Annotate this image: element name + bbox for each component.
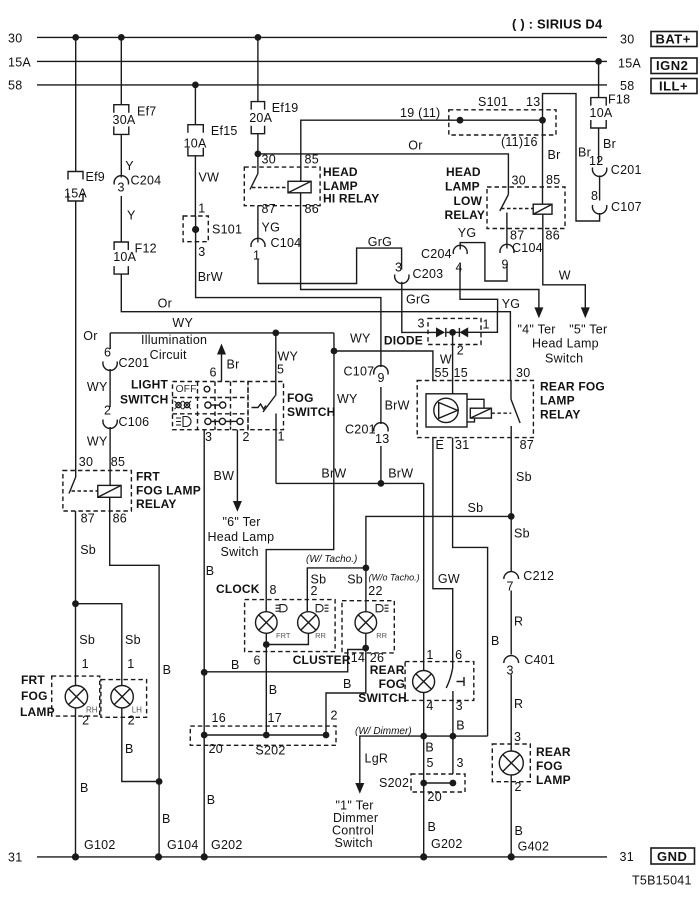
svg-text:C201: C201: [345, 423, 376, 437]
svg-text:Switch: Switch: [221, 545, 259, 559]
svg-text:8: 8: [270, 583, 277, 597]
wire 19(11): HI relay pin 85 up and right into S101: [301, 120, 543, 181]
instrument: CLOCK dashed box: [245, 600, 336, 652]
svg-text:31: 31: [620, 850, 634, 864]
bus line 31 (GND): [37, 856, 607, 858]
svg-text:1: 1: [198, 202, 205, 216]
node: junction Ef15 on bus 58: [192, 82, 199, 89]
wire WY: left end down to C201 pin 6: [109, 333, 111, 349]
svg-text:C104: C104: [512, 241, 543, 255]
svg-text:30: 30: [8, 32, 22, 46]
clock illumination lamp (FRT): [255, 612, 277, 634]
rear fog switch contact and lever: [452, 662, 454, 668]
svg-text:Ef9: Ef9: [86, 170, 106, 184]
connector C201 pin 13: [374, 423, 388, 432]
cluster lamp RR (W/o Tacho): [355, 612, 377, 634]
node: cluster lamp junction: [362, 645, 369, 652]
node G202 (left): [201, 853, 208, 860]
svg-text:G402: G402: [518, 840, 550, 854]
wire B: relay pin 31 down, right, down bypass: [453, 438, 488, 736]
svg-text:3: 3: [507, 664, 514, 678]
node G402: [508, 853, 515, 860]
svg-text:15A: 15A: [618, 57, 641, 71]
wire W: diode pin 2 down to REAR FOG LAMP RELAY pin 15: [452, 332, 454, 393]
wire VW: Ef15 to splice S101: [194, 156, 196, 216]
svg-text:W: W: [559, 268, 571, 282]
connector C401 pin 3: [504, 656, 519, 663]
wire: diode pin 1 to junction: [467, 312, 497, 333]
svg-text:C106: C106: [119, 415, 150, 429]
svg-text:(W/ Tacho.): (W/ Tacho.): [306, 554, 357, 565]
svg-text:87: 87: [520, 438, 534, 452]
LOW relay switch contact: [507, 187, 509, 195]
lamp housing: FRT FOG LAMP RH dashed box: [52, 676, 100, 716]
svg-text:YG: YG: [502, 297, 521, 311]
svg-text:F12: F12: [135, 242, 157, 256]
svg-text:26: 26: [370, 651, 384, 665]
svg-text:FOG: FOG: [379, 677, 406, 691]
wire bus30 to fuse Ef9: [75, 37, 77, 171]
wire bus58 to fuse Ef15: [194, 85, 196, 125]
svg-text:8: 8: [591, 189, 598, 203]
svg-text:BrW: BrW: [198, 270, 223, 284]
svg-text:REAR: REAR: [536, 745, 571, 759]
switch S: REAR FOG SWITCH dashed box: [405, 662, 474, 701]
svg-text:FOG LAMP: FOG LAMP: [136, 483, 201, 497]
svg-text:86: 86: [113, 511, 127, 525]
node: B junction to cluster pin 14: [201, 669, 208, 676]
diode D2 (right): [459, 327, 468, 337]
svg-text:Switch: Switch: [545, 351, 583, 365]
svg-text:3: 3: [395, 261, 402, 275]
svg-text:"5" Ter: "5" Ter: [569, 323, 607, 337]
wire: rear fog switch pin 4 down to S202: [423, 693, 425, 857]
svg-text:FRT: FRT: [276, 631, 291, 640]
svg-text:Or: Or: [158, 296, 172, 310]
svg-text:S202: S202: [255, 744, 285, 758]
bus line 58 (ILL+): [37, 84, 607, 86]
HI relay switch contact: [257, 167, 259, 173]
FRT relay switch contact: [75, 471, 77, 478]
rear fog relay actuating dashed link: [491, 412, 511, 414]
svg-text:RELAY: RELAY: [445, 208, 486, 222]
svg-text:B: B: [456, 719, 465, 733]
rear fog relay coil: [470, 408, 491, 418]
svg-text:22: 22: [368, 584, 382, 598]
fuse Ef19 20A: [251, 102, 264, 134]
wire WY: C201-6 to C106 pin 2: [109, 369, 111, 407]
svg-text:3: 3: [118, 181, 125, 195]
wire BrW: S101 pin3 down then right to C107 pin 9: [196, 242, 381, 367]
svg-text:19 (11): 19 (11): [400, 106, 440, 120]
svg-text:R: R: [514, 697, 523, 711]
svg-text:RR: RR: [315, 631, 326, 640]
svg-text:C203: C203: [413, 267, 444, 281]
svg-text:30: 30: [620, 32, 634, 46]
wire YG: C204-4 down, right, down to Or/YG junction: [460, 266, 498, 312]
svg-text:C212: C212: [523, 569, 554, 583]
svg-text:7: 7: [507, 580, 514, 594]
wire inside S202: [424, 782, 453, 784]
svg-text:LAMP: LAMP: [540, 393, 575, 407]
connector C212 pin 7: [504, 572, 519, 579]
svg-text:RR: RR: [376, 631, 387, 640]
svg-text:9: 9: [502, 258, 509, 272]
lamp FRT FOG RH: [65, 686, 87, 708]
node: splice S202 pin17: [263, 732, 270, 739]
svg-text:3: 3: [456, 699, 463, 713]
lamp REAR FOG: [499, 751, 523, 775]
svg-text:WY: WY: [337, 392, 358, 406]
svg-text:2: 2: [331, 709, 338, 723]
rear fog switch indicator lamp: [413, 671, 435, 693]
svg-text:17: 17: [268, 711, 282, 725]
svg-text:87: 87: [81, 511, 95, 525]
wire Or: Ef9 to FRT FOG LAMP RELAY pin 30: [75, 201, 77, 471]
wire WY: to branch junction then right to relay pin 55: [334, 333, 433, 381]
wire through S101: [195, 216, 197, 242]
wire: cluster pin 22 into lamp: [365, 601, 367, 612]
svg-text:30: 30: [516, 366, 530, 380]
svg-text:5: 5: [427, 756, 434, 770]
svg-text:B: B: [207, 793, 216, 807]
svg-text:B: B: [163, 663, 172, 677]
svg-text:RELAY: RELAY: [540, 408, 581, 422]
connector C104 pin 1: [251, 238, 265, 247]
wire inside S202: [204, 734, 326, 736]
wire Sb: FRT relay pin 87 down to FRT FOG LAMP RH: [75, 511, 77, 686]
svg-text:Br: Br: [578, 146, 591, 160]
wire YG: LOW relay pin 87 down to C104 pin 9: [506, 229, 508, 249]
node: pin 3 / B junction: [450, 733, 457, 740]
svg-text:B: B: [428, 820, 437, 834]
rear fog relay module triangle: [439, 403, 458, 419]
svg-text:55: 55: [435, 366, 449, 380]
svg-text:14: 14: [351, 651, 365, 665]
svg-text:T5B15041: T5B15041: [632, 874, 692, 888]
wire Sb: W/Tacho branch to cluster pin 2: [307, 568, 366, 600]
wire R: C401-3 down to REAR FOG LAMP: [510, 675, 512, 751]
svg-text:Ef7: Ef7: [137, 105, 157, 119]
connector C201 pin 12: [592, 168, 606, 177]
diode assembly dashed box: [428, 318, 481, 344]
svg-text:C107: C107: [611, 200, 642, 214]
wire Or: F12 down then right to YG junction: [121, 274, 497, 312]
svg-text:B: B: [206, 564, 215, 578]
wire BrW: C201-13 down to BrW junction: [380, 446, 382, 483]
svg-text:3: 3: [457, 756, 464, 770]
svg-text:C107: C107: [344, 364, 375, 378]
svg-text:2: 2: [128, 714, 135, 728]
svg-text:"6" Ter: "6" Ter: [223, 515, 261, 529]
wire GrG: C203-3 down to diode pin 3: [402, 282, 436, 333]
wire B: LH lamp pin 2 down then right to G104 wire: [122, 708, 159, 782]
svg-text:10A: 10A: [184, 137, 207, 151]
svg-text:1: 1: [278, 430, 285, 444]
svg-text:( ) : SIRIUS D4: ( ) : SIRIUS D4: [512, 17, 603, 32]
svg-text:B: B: [231, 658, 240, 672]
wire B: RH lamp pin 2 to ground G102: [75, 708, 77, 857]
svg-text:Circuit: Circuit: [150, 348, 187, 362]
svg-text:10A: 10A: [113, 250, 136, 264]
svg-text:IGN2: IGN2: [656, 58, 688, 73]
LOW relay actuating dashed link: [501, 208, 533, 210]
svg-text:2: 2: [515, 780, 522, 794]
svg-text:3: 3: [198, 245, 205, 259]
svg-text:BrW: BrW: [388, 466, 413, 480]
svg-text:FRT: FRT: [136, 470, 160, 484]
wire: C107-8 down then left-up elbow to wire 13 of S101: [543, 94, 600, 221]
wire R: C212-7 to C401-3: [510, 591, 512, 655]
wire B: rear fog lamp pin 2 to ground G402: [510, 775, 512, 857]
box GND: [651, 848, 695, 864]
svg-text:G202: G202: [211, 838, 243, 852]
svg-text:1: 1: [127, 657, 134, 671]
LOW relay coil: [533, 204, 552, 214]
svg-text:2: 2: [104, 404, 111, 418]
node: diode common junction: [449, 329, 456, 336]
relay U: HEAD LAMP HI RELAY dashed box: [244, 167, 320, 206]
svg-text:3: 3: [205, 430, 212, 444]
lamp housing: FRT FOG LAMP LH dashed box: [101, 680, 147, 718]
svg-text:WY: WY: [172, 316, 193, 330]
svg-text:C401: C401: [524, 653, 555, 667]
switch S: FOG SWITCH dashed box: [248, 382, 284, 430]
svg-text:Y: Y: [127, 208, 136, 222]
light switch head position contacts: [205, 418, 211, 424]
svg-text:86: 86: [546, 229, 560, 243]
svg-text:S101: S101: [212, 223, 242, 237]
svg-text:Sb: Sb: [80, 543, 96, 557]
wire B: clock pin 6 down to S202 pin 17: [265, 652, 267, 735]
connector C204 pin 4: [453, 245, 467, 254]
splice S202 (upper) dashed box: [190, 726, 336, 745]
svg-text:B: B: [269, 683, 278, 697]
svg-text:C201: C201: [611, 163, 642, 177]
svg-text:CLUSTER: CLUSTER: [293, 653, 351, 667]
relay: FRT FOG LAMP RELAY dashed box: [63, 471, 131, 512]
arrow to "4" Ter head lamp switch: [534, 307, 543, 318]
bus line 15A (IGN2): [37, 60, 607, 62]
svg-text:85: 85: [305, 153, 319, 167]
svg-text:58: 58: [8, 79, 22, 93]
node: splice point S101 left: [457, 117, 464, 124]
svg-text:F18: F18: [608, 93, 630, 107]
wire YG: junction right then down to REAR FOG LAMP RELAY pin 30: [498, 312, 511, 381]
node: WY branch junction: [331, 348, 338, 355]
wire LgR: junction row to dimmer arrow: [360, 736, 488, 783]
svg-text:G102: G102: [84, 838, 116, 852]
svg-text:LAMP: LAMP: [536, 773, 571, 787]
svg-text:6: 6: [104, 346, 111, 360]
svg-text:Sb: Sb: [514, 527, 530, 541]
node: splice S202 pin2: [323, 732, 330, 739]
cluster lamp RR (W/ Tacho): [298, 612, 320, 634]
svg-text:Br: Br: [227, 358, 240, 372]
node G104: [155, 853, 162, 860]
svg-text:Switch: Switch: [335, 836, 373, 850]
splice S202 (lower) dashed box: [411, 774, 465, 792]
svg-text:Sb: Sb: [516, 470, 532, 484]
svg-text:B: B: [125, 742, 134, 756]
rear fog relay switch contact: [510, 381, 512, 400]
svg-text:G202: G202: [431, 837, 463, 851]
connector C107 pin 9: [374, 366, 388, 375]
svg-text:30: 30: [512, 174, 526, 188]
node G202 (right): [420, 853, 427, 860]
svg-text:9: 9: [378, 371, 385, 385]
svg-text:2: 2: [311, 584, 318, 598]
svg-text:30: 30: [79, 455, 93, 469]
arrow to "6" Ter head lamp switch: [233, 501, 242, 512]
FRT relay actuating dashed link: [72, 490, 98, 492]
wire: clock pin 2 into lamp: [306, 600, 308, 612]
svg-text:DIODE: DIODE: [384, 333, 423, 347]
wire (11)16 Br: S101 down to LOW relay coil pin 85: [542, 120, 544, 204]
svg-text:15: 15: [454, 366, 468, 380]
wire Sb: rear fog relay pin 87 down: [510, 426, 512, 571]
svg-text:Y: Y: [125, 159, 134, 173]
connector C104 pin 9: [500, 244, 514, 253]
wire WY: C106-2 down to FRT FOG LAMP RELAY pin 85: [109, 427, 111, 485]
rear fog relay module circle: [434, 398, 458, 422]
svg-text:GrG: GrG: [368, 235, 392, 249]
lamp housing: REAR FOG LAMP dashed box: [492, 744, 530, 782]
wire: Ef19 to HI relay pin 30: [257, 134, 259, 167]
node: splice S202 left: [420, 780, 427, 787]
fuse Ef9 15A: [68, 172, 83, 202]
wire B: FRT relay pin 86 down, right, down to ground G104: [110, 497, 159, 857]
svg-text:31: 31: [455, 438, 469, 452]
svg-text:SWITCH: SWITCH: [120, 393, 169, 407]
box ILL+: [651, 79, 697, 94]
svg-text:Or: Or: [408, 139, 422, 153]
splice S101 (left) dashed box: [183, 216, 208, 242]
svg-text:1: 1: [253, 249, 260, 263]
node: Sb junction to cluster pin 22: [508, 513, 515, 520]
svg-text:(11)16: (11)16: [501, 135, 538, 149]
svg-text:12: 12: [589, 154, 603, 168]
wire Y: C204 to fuse F12: [120, 196, 122, 242]
wire Br: C201-12 to connector C107 pin 8: [599, 176, 601, 201]
svg-text:Br: Br: [603, 137, 616, 151]
node G102: [72, 853, 79, 860]
wire BW: light switch pin 2 down to "6" Ter arrow: [236, 430, 238, 502]
svg-text:86: 86: [305, 202, 319, 216]
wire 15A bus to fuse F18: [598, 61, 600, 97]
wire WY horizontal main: [110, 332, 334, 334]
svg-text:FRT: FRT: [21, 673, 45, 687]
svg-text:10A: 10A: [590, 106, 613, 120]
wire: clock pin 8 into lamp: [265, 600, 267, 612]
svg-text:87: 87: [262, 202, 276, 216]
svg-text:FOG: FOG: [536, 759, 563, 773]
icon rear fog (cluster mid): [316, 605, 328, 612]
svg-text:3: 3: [514, 730, 521, 744]
svg-text:HEAD: HEAD: [323, 165, 358, 179]
svg-text:1: 1: [426, 648, 433, 662]
wire WY: fog switch pin 5: [275, 333, 277, 396]
svg-text:OFF: OFF: [176, 383, 197, 395]
node: pin 4 / LgR junction: [420, 733, 427, 740]
svg-text:30A: 30A: [113, 113, 136, 127]
svg-text:LAMP: LAMP: [445, 179, 480, 193]
wire Sb: junction right then down to FRT FOG LAMP LH: [76, 604, 122, 686]
node: junction F18 on bus 15A: [595, 58, 602, 65]
svg-text:15A: 15A: [8, 56, 31, 70]
node: clock lamp junction: [263, 641, 270, 648]
svg-text:LOW: LOW: [454, 194, 483, 208]
wire GrG: C104-1 down, right, up, right, down to C203 pin 3: [258, 248, 402, 283]
svg-text:4: 4: [426, 699, 433, 713]
svg-text:31: 31: [8, 851, 22, 865]
wire Sb horizontal to cluster pin 22: [366, 516, 511, 600]
wire: HI relay pin 86 down then right to "4" Ter arrow: [301, 193, 539, 308]
instrument: CLUSTER right dashed box: [342, 601, 394, 653]
arrow up to illumination circuit: [217, 344, 226, 355]
node: W/Tacho junction: [363, 565, 370, 572]
node: Sb junction to LH lamp: [72, 600, 79, 607]
light switch OFF position contact: [204, 386, 210, 392]
wire WY: branch down then left to CLOCK pin 8: [266, 351, 334, 600]
switch S: LIGHT SWITCH dashed box: [173, 382, 249, 430]
svg-text:30: 30: [262, 153, 276, 167]
wire Y: Ef7 to connector C204 pin 3: [120, 134, 122, 177]
svg-text:Sb: Sb: [347, 572, 363, 586]
HI relay actuating dashed link: [252, 187, 288, 189]
node: junction Ef9 on bus 30: [72, 34, 79, 41]
svg-text:REAR: REAR: [370, 663, 405, 677]
svg-text:GND: GND: [657, 849, 687, 864]
svg-text:Ef19: Ef19: [272, 101, 299, 115]
fuse F12 10A: [114, 242, 128, 274]
svg-text:13: 13: [526, 95, 540, 109]
svg-text:15A: 15A: [64, 187, 87, 201]
wire B: cluster pin 26 down to S202 pin 2: [326, 653, 366, 735]
svg-text:Ef15: Ef15: [211, 124, 238, 138]
svg-text:GrG: GrG: [406, 292, 430, 306]
relay: REAR FOG LAMP RELAY dashed box: [417, 381, 533, 438]
svg-text:1: 1: [483, 317, 490, 331]
svg-text:1: 1: [82, 657, 89, 671]
icon low beam (clock): [276, 605, 288, 612]
svg-text:S202: S202: [379, 776, 409, 790]
node: splice point S101: [192, 226, 199, 233]
bus line 30: [37, 36, 607, 38]
wire: clock lamps common to pin 6: [266, 633, 308, 644]
svg-text:YG: YG: [458, 226, 477, 240]
svg-text:"4" Ter: "4" Ter: [518, 323, 556, 337]
wire B: down to rear fog switch pin 1: [423, 483, 425, 670]
connector C204 pin 3: [114, 176, 128, 185]
svg-text:16: 16: [212, 711, 226, 725]
wire B: cluster pin 14 branch left to light switch B wire: [204, 650, 366, 672]
svg-text:2: 2: [82, 714, 89, 728]
wire bus30 to fuse Ef19: [257, 37, 259, 101]
svg-text:Or: Or: [83, 329, 97, 343]
light switch park position contacts: [205, 402, 211, 408]
box IGN2: [651, 58, 697, 74]
svg-text:Head Lamp: Head Lamp: [532, 336, 599, 350]
svg-text:C204: C204: [421, 247, 452, 261]
svg-text:WY: WY: [350, 332, 371, 346]
wire: rear fog switch pin 3 down: [452, 691, 454, 774]
svg-text:FOG: FOG: [287, 391, 314, 405]
wire GW: relay pin E down, right, down to rear fog switch pin 6: [433, 438, 453, 662]
node: splice S202 pin16: [201, 732, 208, 739]
connector C201 pin 6: [103, 362, 117, 371]
relay U: HEAD LAMP LOW RELAY dashed box: [487, 187, 565, 229]
